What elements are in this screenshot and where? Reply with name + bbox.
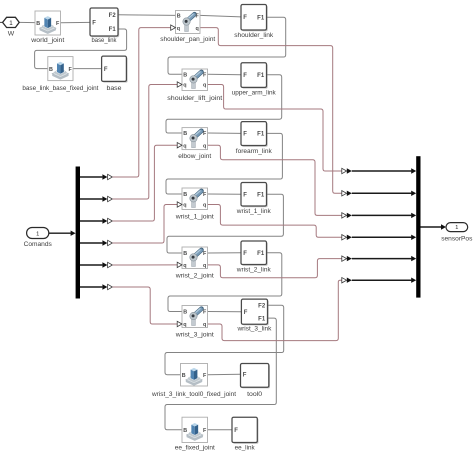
svg-text:F: F [244,310,248,316]
svg-text:F: F [234,428,238,434]
joint block wrist_1_joint [175,188,214,220]
joint block wrist_3_joint [175,306,214,339]
wire wrist_2_link F1 to wrist_3_joint B [168,253,282,312]
svg-text:F: F [92,21,96,27]
svg-text:F: F [243,251,247,257]
wire W to world_joint B [19,21,35,23]
svg-text:q: q [177,26,180,32]
wire wrist_2_joint q to mux in 5 [208,256,417,278]
wire demux out 2 to shoulder_lift_joint q [80,85,178,202]
block wrist_2_link [236,241,272,273]
wire wrist_1_joint q to mux in 4 [208,205,417,241]
svg-text:F1: F1 [109,27,117,33]
svg-text:ee_fixed_joint: ee_fixed_joint [175,445,215,452]
wire forearm_link F1 to wrist_1_joint B [166,133,282,194]
svg-text:wrist_3_joint: wrist_3_joint [175,331,214,338]
wire demux out 3 to elbow_joint q [80,145,178,224]
wire wrist_1_link F1 to wrist_2_joint B [167,194,283,253]
svg-text:q: q [183,322,186,328]
block wrist_3_link [236,299,272,333]
wire shoulder_pan_joint F to shoulder_link F [200,15,241,17]
block shoulder_link [234,5,274,40]
svg-text:B: B [177,14,181,20]
svg-text:F1: F1 [257,192,265,198]
svg-text:F1: F1 [257,15,265,21]
wire wrist_3_link_tool0_fixed_joint F to tool0 F [208,373,241,375]
svg-text:q: q [203,83,206,89]
wire base_link F2 to shoulder_pan_joint B [118,14,176,17]
joint block wrist_2_joint [175,247,214,279]
svg-text:F: F [243,192,247,198]
svg-text:F: F [243,73,247,79]
wire base_link_base_fixed_joint F to base F [73,68,102,70]
wire demux out 5 to wrist_2_joint q [80,262,178,267]
svg-text:F: F [104,67,108,73]
output port sensorPos [421,223,474,243]
wire world_joint F to base_link F [61,21,91,23]
svg-text:F1: F1 [257,132,265,138]
svg-text:wrist_2_link: wrist_2_link [236,266,272,273]
wire wrist_3_joint q to mux in 6 [208,278,417,341]
block base_link [90,8,119,44]
svg-text:elbow_joint: elbow_joint [178,153,211,160]
svg-text:Comands: Comands [24,241,53,248]
fixed joint block world_joint [30,11,64,44]
fixed joint block base_link_base_fixed_joint [22,57,98,92]
svg-text:q: q [203,143,206,149]
block ee_link [232,417,259,451]
svg-text:F2: F2 [109,13,117,19]
wire wrist_1_joint F to wrist_1_link F [208,193,242,195]
wire wrist_3_link F1 to ee_fixed_joint B [165,318,276,430]
joint block elbow_joint [177,128,211,160]
svg-text:F1: F1 [257,251,265,257]
svg-text:q: q [183,263,186,269]
svg-text:q: q [183,143,186,149]
svg-text:W: W [8,31,15,38]
block wrist_1_link [236,183,272,215]
svg-text:base_link_base_fixed_joint: base_link_base_fixed_joint [22,85,98,92]
svg-text:q: q [203,322,206,328]
mux bar [416,156,420,297]
svg-text:B: B [183,73,187,79]
svg-text:wrist_1_joint: wrist_1_joint [175,213,214,220]
svg-text:B: B [183,251,187,257]
svg-text:B: B [183,428,187,434]
svg-text:F: F [243,373,247,379]
svg-text:F2: F2 [258,303,266,309]
svg-text:shoulder_link: shoulder_link [234,32,274,39]
svg-text:tool0: tool0 [247,391,262,398]
wire shoulder_lift_joint q to mux in 1 [208,85,417,174]
wire wrist_3_link F2 to wrist_3_link_tool0_fixed_joint B [165,305,284,375]
block forearm_link [236,122,273,155]
svg-text:q: q [196,26,199,32]
joint block shoulder_pan_joint [160,11,215,44]
wire shoulder_link F1 to shoulder_lift_joint B [168,17,286,74]
input port W [3,17,20,37]
svg-text:shoulder_lift_joint: shoulder_lift_joint [167,95,222,102]
svg-text:q: q [183,203,186,209]
fixed joint block ee_fixed_joint [175,417,215,451]
svg-text:world_joint: world_joint [30,37,64,44]
joint block shoulder_lift_joint [167,69,222,102]
svg-text:wrist_3_link_tool0_fixed_joint: wrist_3_link_tool0_fixed_joint [151,391,236,398]
wire upper_arm_link F1 to elbow_joint B [166,75,282,133]
wire ee_fixed_joint F to ee_link F [208,429,233,431]
svg-text:1: 1 [455,225,458,231]
svg-text:B: B [183,310,187,316]
svg-text:base: base [107,85,122,92]
svg-text:B: B [183,131,187,137]
svg-text:1: 1 [9,20,13,27]
svg-text:F1: F1 [258,316,266,322]
svg-text:wrist_3_link: wrist_3_link [236,326,272,333]
block upper_arm_link [232,63,277,97]
svg-text:F1: F1 [257,73,265,79]
svg-text:wrist_1_link: wrist_1_link [236,208,272,215]
svg-text:q: q [203,203,206,209]
wire demux out 4 to wrist_1_joint q [80,205,178,246]
wire wrist_2_joint F to wrist_2_link F [208,252,242,254]
wire demux out 1 to shoulder_pan_joint q [80,28,171,180]
svg-text:F: F [243,15,247,21]
svg-text:1: 1 [36,232,39,238]
block base [102,56,128,92]
svg-text:wrist_2_joint: wrist_2_joint [175,272,214,279]
wire base_link F1 to base_link_base_fixed_joint B [35,29,127,69]
wire demux out 6 to wrist_3_joint q [80,284,178,324]
svg-text:B: B [183,192,187,198]
svg-text:B: B [49,67,53,73]
svg-text:upper_arm_link: upper_arm_link [232,90,277,97]
wire elbow_joint q to mux in 3 [208,145,417,218]
demux bar [76,167,80,299]
wire shoulder_lift_joint F to upper_arm_link F [208,73,242,76]
wire elbow_joint F to forearm_link F [208,132,242,134]
svg-text:ee_link: ee_link [235,445,256,452]
block tool0 [241,364,271,399]
svg-text:shoulder_pan_joint: shoulder_pan_joint [160,36,215,43]
svg-text:q: q [203,263,206,269]
input port Comands [24,228,76,249]
svg-text:q: q [183,83,186,89]
svg-text:B: B [36,21,40,27]
svg-text:sensorPos: sensorPos [441,236,473,243]
svg-text:B: B [182,373,186,379]
wire into W port [0,21,3,23]
svg-text:base_link: base_link [92,37,118,44]
fixed joint block wrist_3_link_tool0_fixed_joint [151,364,236,399]
svg-text:forearm_link: forearm_link [236,148,273,155]
svg-text:F: F [243,132,247,138]
wire wrist_3_joint F to wrist_3_link F [208,311,242,313]
wire shoulder_pan_joint q to mux in 2 [200,28,416,196]
